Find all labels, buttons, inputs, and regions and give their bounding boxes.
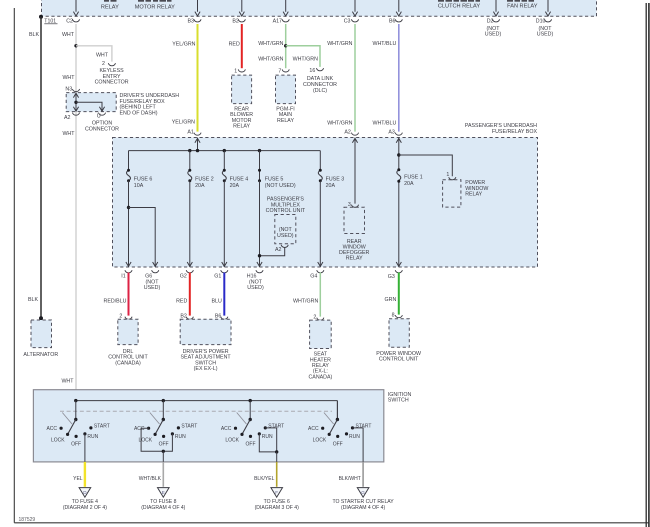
wire bus down to fuse 6: [128, 151, 130, 171]
svg-text:CONTROL UNIT: CONTROL UNIT: [379, 357, 419, 363]
svg-text:U: U: [97, 114, 101, 120]
top box pin arrow at x=76: [75, 0, 77, 12]
svg-text:FUSE 6: FUSE 6: [134, 177, 153, 183]
ignition switch pole 1 pivot: [75, 401, 77, 420]
svg-text:FUSE 3: FUSE 3: [326, 177, 345, 183]
page border left: [13, 8, 15, 523]
svg-text:FUSE 2: FUSE 2: [195, 177, 214, 183]
wire A1 to internal bus: [197, 138, 199, 151]
bus nodes: [188, 149, 191, 152]
svg-text:16: 16: [309, 68, 315, 74]
wire pole 3 output down: [276, 452, 278, 462]
svg-text:MOTOR RELAY: MOTOR RELAY: [135, 4, 175, 10]
wire bus down to fuse 5: [259, 151, 261, 171]
mechanical linkage dashed line: [60, 410, 332, 412]
svg-text:20A: 20A: [195, 183, 205, 189]
pin G2: [186, 270, 193, 273]
svg-text:(CANADA): (CANADA): [115, 360, 141, 366]
svg-text:USED): USED): [537, 32, 554, 38]
wire WHT/GRN from G4 to seat heater relay: [319, 273, 321, 317]
pin A2 of multiplex control unit: [281, 245, 288, 248]
junction node fuse 6 branch: [127, 206, 130, 209]
junction node on WHT wire: [74, 44, 77, 47]
wire fuse 4 output to G1: [223, 181, 225, 267]
svg-text:RUN: RUN: [175, 434, 186, 440]
svg-text:2: 2: [102, 61, 105, 67]
svg-text:RUN: RUN: [262, 434, 273, 440]
wire multiplex A2 to H16 line: [260, 248, 285, 256]
wire fuse 3 output to G4: [319, 181, 321, 267]
svg-text:G: G: [361, 490, 365, 495]
svg-text:(EX EX-L): (EX EX-L): [194, 366, 218, 372]
wire RED from B2 to rear blower motor relay: [241, 24, 243, 68]
svg-text:ACC: ACC: [46, 426, 57, 432]
off-page arrow F: [271, 488, 283, 498]
wire A2 to rear window defogger relay: [354, 138, 356, 204]
ignition switch pole 1 linkage tick: [62, 413, 72, 425]
internal bus wire: [129, 150, 321, 152]
junction node A3 branch: [397, 153, 400, 156]
ignition switch pole 4 lever: [329, 420, 337, 435]
wire WHT/GRN from A17 to PGM-FI main relay: [285, 24, 287, 68]
data link connector pin 16: [316, 68, 323, 71]
svg-text:G4: G4: [310, 273, 317, 279]
wire BLK/WHT from ignition switch: [362, 462, 364, 487]
rear blower motor relay: [232, 75, 252, 104]
seat heater relay pin 2: [317, 318, 324, 321]
svg-text:ACC: ACC: [134, 426, 145, 432]
svg-text:YEL: YEL: [73, 476, 83, 482]
pin A17: [282, 19, 289, 22]
wire BLK from T101 to alternator: [40, 17, 42, 319]
wire fuse 2 output to G2: [189, 181, 191, 267]
svg-text:BLK: BLK: [28, 297, 38, 303]
wire fuse 5 line to H16: [259, 181, 261, 267]
page border right double line: [645, 3, 647, 527]
fuse FUSE 6 10A: [127, 170, 131, 181]
wire BLK/YEL from ignition switch: [276, 462, 278, 487]
svg-text:RUN: RUN: [349, 434, 360, 440]
top box pin arrow at x=285.7: [285, 0, 287, 12]
svg-text:WHT/GRN: WHT/GRN: [327, 120, 352, 126]
svg-text:BLK/YEL: BLK/YEL: [254, 476, 275, 482]
svg-text:10A: 10A: [134, 183, 144, 189]
svg-text:OFF: OFF: [159, 442, 169, 448]
ignition switch pole 1 contacts ACC LOCK OFF RUN START: [60, 427, 63, 430]
top box pin arrow at x=197.5: [197, 0, 199, 12]
ignition switch pole 2 lever: [155, 420, 163, 435]
svg-text:FAN RELAY: FAN RELAY: [507, 4, 538, 10]
wire GRN from G3 to power window control unit: [398, 273, 400, 315]
svg-text:WHT/GRN: WHT/GRN: [327, 41, 352, 47]
ignition switch pole 3 lever: [242, 420, 250, 435]
svg-text:7: 7: [278, 69, 281, 75]
svg-text:START: START: [94, 423, 110, 429]
page border bottom: [14, 522, 649, 524]
pin D10 (not used): [544, 19, 551, 22]
svg-text:BLK/WHT: BLK/WHT: [339, 476, 361, 482]
pin G6 (not used): [152, 270, 159, 273]
rear window defogger relay: [344, 207, 365, 233]
ignition switch pole 4 pivot: [336, 401, 338, 420]
fuse FUSE 3 20A: [318, 170, 322, 181]
fuse FUSE 2 20A: [188, 170, 192, 181]
wire YEL/GRN from B3 to A1: [197, 24, 199, 132]
svg-text:OFF: OFF: [71, 442, 81, 448]
wire fuse 6 output to I1: [128, 181, 130, 267]
svg-text:CLUTCH RELAY: CLUTCH RELAY: [438, 4, 480, 10]
passenger's underdash fuse/relay box: [113, 138, 538, 268]
wire WHT/BLU from B6 to A3 of passenger's box: [398, 24, 400, 132]
svg-text:ACC: ACC: [221, 426, 232, 432]
svg-text:BLK: BLK: [29, 32, 39, 38]
pin D2 (not used): [492, 19, 499, 22]
wire branch to power window relay: [399, 155, 453, 176]
engine compartment relay box (top, cut off): [42, 0, 597, 16]
pin I1: [125, 270, 132, 273]
svg-text:G2: G2: [180, 273, 187, 279]
svg-text:1: 1: [446, 172, 449, 178]
svg-text:END OF DASH): END OF DASH): [120, 110, 158, 116]
svg-text:20A: 20A: [404, 181, 414, 187]
fuse FUSE 4 20A: [222, 170, 226, 181]
svg-text:B6: B6: [389, 19, 396, 25]
svg-text:BLU: BLU: [211, 299, 221, 305]
svg-text:LOCK: LOCK: [51, 438, 65, 444]
ignition switch box: [33, 390, 383, 462]
svg-text:WHT/GRN: WHT/GRN: [293, 299, 318, 305]
svg-text:YEL/GRN: YEL/GRN: [172, 119, 195, 125]
ignition switch pole 2 pivot: [162, 401, 164, 420]
svg-text:1: 1: [234, 69, 237, 75]
pin C2: [72, 19, 79, 22]
svg-text:WHT: WHT: [61, 378, 74, 384]
svg-text:D10: D10: [536, 19, 546, 25]
wire WHT/GRN branch to data link connector: [286, 46, 320, 67]
DRL control unit (Canada): [118, 319, 138, 344]
svg-text:20A: 20A: [326, 183, 336, 189]
pin B2: [238, 19, 245, 22]
svg-text:RED: RED: [176, 299, 187, 305]
svg-text:A2: A2: [64, 115, 71, 121]
svg-text:RED: RED: [229, 42, 240, 48]
ignition switch pole 3 linkage tick: [237, 413, 247, 425]
off-page arrow D: [79, 488, 91, 498]
svg-text:A2: A2: [275, 247, 282, 253]
power window relay pin 1: [449, 177, 456, 180]
svg-text:LOCK: LOCK: [225, 438, 239, 444]
svg-text:WHT/GRN: WHT/GRN: [293, 57, 318, 63]
svg-text:GRN: GRN: [385, 297, 397, 303]
wire WHT/BLK from ignition switch: [162, 462, 164, 487]
fuse FUSE 1 20A: [397, 170, 401, 181]
wire rail in ignition switch: [76, 400, 338, 402]
svg-text:C2: C2: [66, 19, 73, 25]
ignition switch pole 3 contacts ACC LOCK OFF RUN START: [234, 427, 237, 430]
svg-text:USED): USED): [247, 285, 264, 291]
svg-text:G1: G1: [214, 273, 221, 279]
svg-text:OFF: OFF: [246, 442, 256, 448]
seat heater relay (EX-L: Canada): [310, 320, 332, 348]
ignition switch pole 4 contacts ACC LOCK OFF RUN START: [321, 427, 324, 430]
wire START branch of pole 3: [265, 428, 276, 452]
svg-text:WHT/BLU: WHT/BLU: [372, 41, 396, 47]
ignition switch pole 2 contacts ACC LOCK OFF RUN START: [147, 427, 150, 430]
top box pin arrow at x=496: [495, 0, 497, 12]
svg-text:N3: N3: [65, 86, 72, 92]
top box pin arrow at x=241.8: [241, 0, 243, 12]
junction node pole 3 output: [275, 450, 278, 453]
pin A2 of passenger's box: [351, 133, 358, 136]
junction node in driver's box: [74, 101, 77, 104]
svg-text:(NOT USED): (NOT USED): [265, 183, 296, 189]
svg-text:FUSE 5: FUSE 5: [265, 177, 284, 183]
svg-text:RELAY: RELAY: [346, 256, 363, 262]
svg-text:RELAY: RELAY: [465, 192, 482, 198]
svg-text:WHT/BLK: WHT/BLK: [139, 476, 162, 482]
svg-text:CONNECTOR: CONNECTOR: [85, 126, 119, 132]
svg-text:USED): USED): [144, 285, 161, 291]
svg-text:USED): USED): [277, 233, 294, 239]
fuse FUSE 5 (not used): [259, 170, 261, 181]
wire WHT from C2 down to ignition switch: [75, 24, 77, 93]
svg-text:RELAY: RELAY: [277, 118, 294, 124]
off-page arrow G: [357, 488, 369, 498]
svg-text:WHT: WHT: [62, 75, 75, 81]
svg-text:WHT/GRN: WHT/GRN: [258, 57, 283, 63]
svg-text:WHT/GRN: WHT/GRN: [258, 41, 283, 47]
svg-text:(DIAGRAM 2 OF 4): (DIAGRAM 2 OF 4): [63, 505, 107, 511]
top box pin arrow at x=355: [354, 0, 356, 12]
pin H16 (not used): [256, 270, 263, 273]
svg-text:F: F: [275, 490, 278, 495]
wire BLU from G1 to driver's power seat switch B6: [223, 273, 225, 316]
svg-text:WHT: WHT: [96, 52, 109, 58]
pin G4: [317, 270, 324, 273]
passenger's multiplex control unit (not used) box: [275, 215, 296, 244]
svg-text:CANADA): CANADA): [308, 374, 332, 380]
top box pin arrow at x=548: [547, 0, 549, 12]
bus corner down to fuse 3: [319, 151, 321, 171]
pin N3: [72, 89, 79, 92]
svg-text:D2: D2: [487, 19, 494, 25]
svg-text:E: E: [162, 490, 165, 495]
wire pole 2 output down: [162, 451, 164, 462]
rail corner down to pole 4: [336, 401, 338, 420]
power window relay: [443, 180, 461, 207]
cut-off text fragments at top edge: [104, 0, 109, 2]
svg-text:FUSE/RELAY BOX: FUSE/RELAY BOX: [492, 129, 538, 135]
junction node on WHT/GRN wire: [284, 44, 287, 47]
pin B6: [395, 19, 402, 22]
pin A2 of driver's box: [72, 113, 79, 116]
pin C3: [351, 19, 358, 22]
svg-text:OFF: OFF: [333, 442, 343, 448]
svg-text:RELAY: RELAY: [101, 4, 119, 10]
svg-text:START: START: [181, 423, 197, 429]
pin A1 of passenger's box: [194, 133, 201, 136]
svg-text:(DLC): (DLC): [313, 88, 327, 94]
wire branch to option connector pin U: [76, 102, 102, 111]
power window control unit: [389, 319, 409, 348]
driver's power seat switch pin B2: [186, 317, 193, 320]
rail nodes: [74, 399, 77, 402]
svg-text:CONTROL UNIT: CONTROL UNIT: [266, 208, 306, 214]
DRL control unit pin 2: [125, 317, 132, 320]
svg-text:LOCK: LOCK: [313, 438, 327, 444]
wire RUN branch of pole 3: [259, 434, 276, 452]
junction node on H16 line: [258, 254, 261, 257]
wire WHT/GRN from C3 to A2 of passenger's box: [354, 24, 356, 132]
svg-text:G3: G3: [388, 274, 395, 280]
driver's power seat switch pin B6: [221, 317, 228, 320]
PGM-FI main relay pin 7: [282, 69, 289, 72]
wire A3 through fuse 1 to G3: [398, 138, 400, 170]
svg-text:A1: A1: [187, 130, 194, 136]
svg-text:A17: A17: [273, 19, 282, 25]
keyless entry connector pin 2: [108, 63, 115, 66]
svg-text:A3: A3: [388, 130, 395, 136]
ignition switch pole 2 linkage tick: [150, 413, 160, 425]
svg-text:ACC: ACC: [308, 426, 319, 432]
top box pin arrow at x=398.8: [398, 0, 400, 12]
pin G3: [395, 270, 402, 273]
svg-text:USED): USED): [485, 32, 502, 38]
pin G1: [221, 270, 228, 273]
svg-text:RELAY: RELAY: [233, 124, 250, 130]
svg-text:A2: A2: [344, 130, 351, 136]
wire START branch of pole 4 output: [353, 428, 364, 462]
svg-text:8: 8: [392, 313, 395, 319]
svg-text:WHT/BLU: WHT/BLU: [372, 120, 396, 126]
svg-text:(DIAGRAM 4 OF 4): (DIAGRAM 4 OF 4): [141, 505, 185, 511]
wire YEL from ignition switch: [84, 462, 86, 487]
wire WHT branch to keyless entry connector: [76, 46, 112, 62]
svg-text:C3: C3: [344, 19, 351, 25]
ignition switch pole 3 pivot: [249, 401, 251, 420]
svg-text:(DIAGRAM 4 OF 4): (DIAGRAM 4 OF 4): [341, 505, 385, 511]
svg-text:YEL/GRN: YEL/GRN: [172, 42, 195, 48]
svg-text:B2: B2: [232, 19, 239, 25]
rear blower motor relay pin 1: [238, 69, 245, 72]
wire bus down to fuse 2: [189, 151, 191, 171]
svg-text:RUN: RUN: [87, 434, 98, 440]
driver's power seat adjustment switch: [180, 319, 231, 344]
pin B3: [194, 19, 201, 22]
wire branch to G6: [129, 208, 156, 267]
pin U option connector: [98, 113, 105, 116]
driver's underdash fuse/relay box: [66, 93, 116, 112]
svg-text:WHT: WHT: [62, 131, 75, 137]
alternator: [31, 320, 52, 348]
pin A3 of passenger's box: [395, 133, 402, 136]
svg-text:SWITCH: SWITCH: [388, 398, 409, 404]
svg-text:B3: B3: [188, 19, 195, 25]
ignition switch pole 1 lever: [68, 420, 76, 435]
wire RED from G2 to driver's power seat switch B2: [189, 273, 191, 316]
terminal T101: [39, 15, 43, 19]
svg-text:CONNECTOR: CONNECTOR: [95, 80, 129, 86]
wire from RUN contact of pole 1 down: [84, 434, 86, 462]
wire ACC-RUN strap of pole 2: [141, 428, 172, 451]
svg-text:I1: I1: [121, 273, 125, 279]
junction node pole 2 output: [162, 450, 165, 453]
power window control unit pin 8: [395, 315, 402, 318]
PGM-FI main relay: [276, 75, 296, 104]
svg-text:(DIAGRAM 3 OF 4): (DIAGRAM 3 OF 4): [255, 505, 299, 511]
wire RED/BLU from I1 to DRL control unit: [128, 273, 130, 316]
off-page arrow E: [158, 488, 170, 498]
svg-text:20A: 20A: [230, 183, 240, 189]
svg-text:187529: 187529: [19, 517, 36, 523]
wire inside driver's box N3 to A2: [75, 93, 77, 112]
rear window defogger relay pin 3: [351, 205, 358, 208]
svg-text:RED/BLU: RED/BLU: [104, 299, 127, 305]
wire bus down to fuse 4: [223, 151, 225, 171]
svg-text:FUSE 1: FUSE 1: [404, 175, 423, 181]
svg-text:FUSE 4: FUSE 4: [230, 177, 249, 183]
ignition switch pole 4 linkage tick: [324, 413, 334, 425]
svg-text:WHT: WHT: [62, 32, 75, 38]
svg-text:ALTERNATOR: ALTERNATOR: [23, 352, 58, 358]
